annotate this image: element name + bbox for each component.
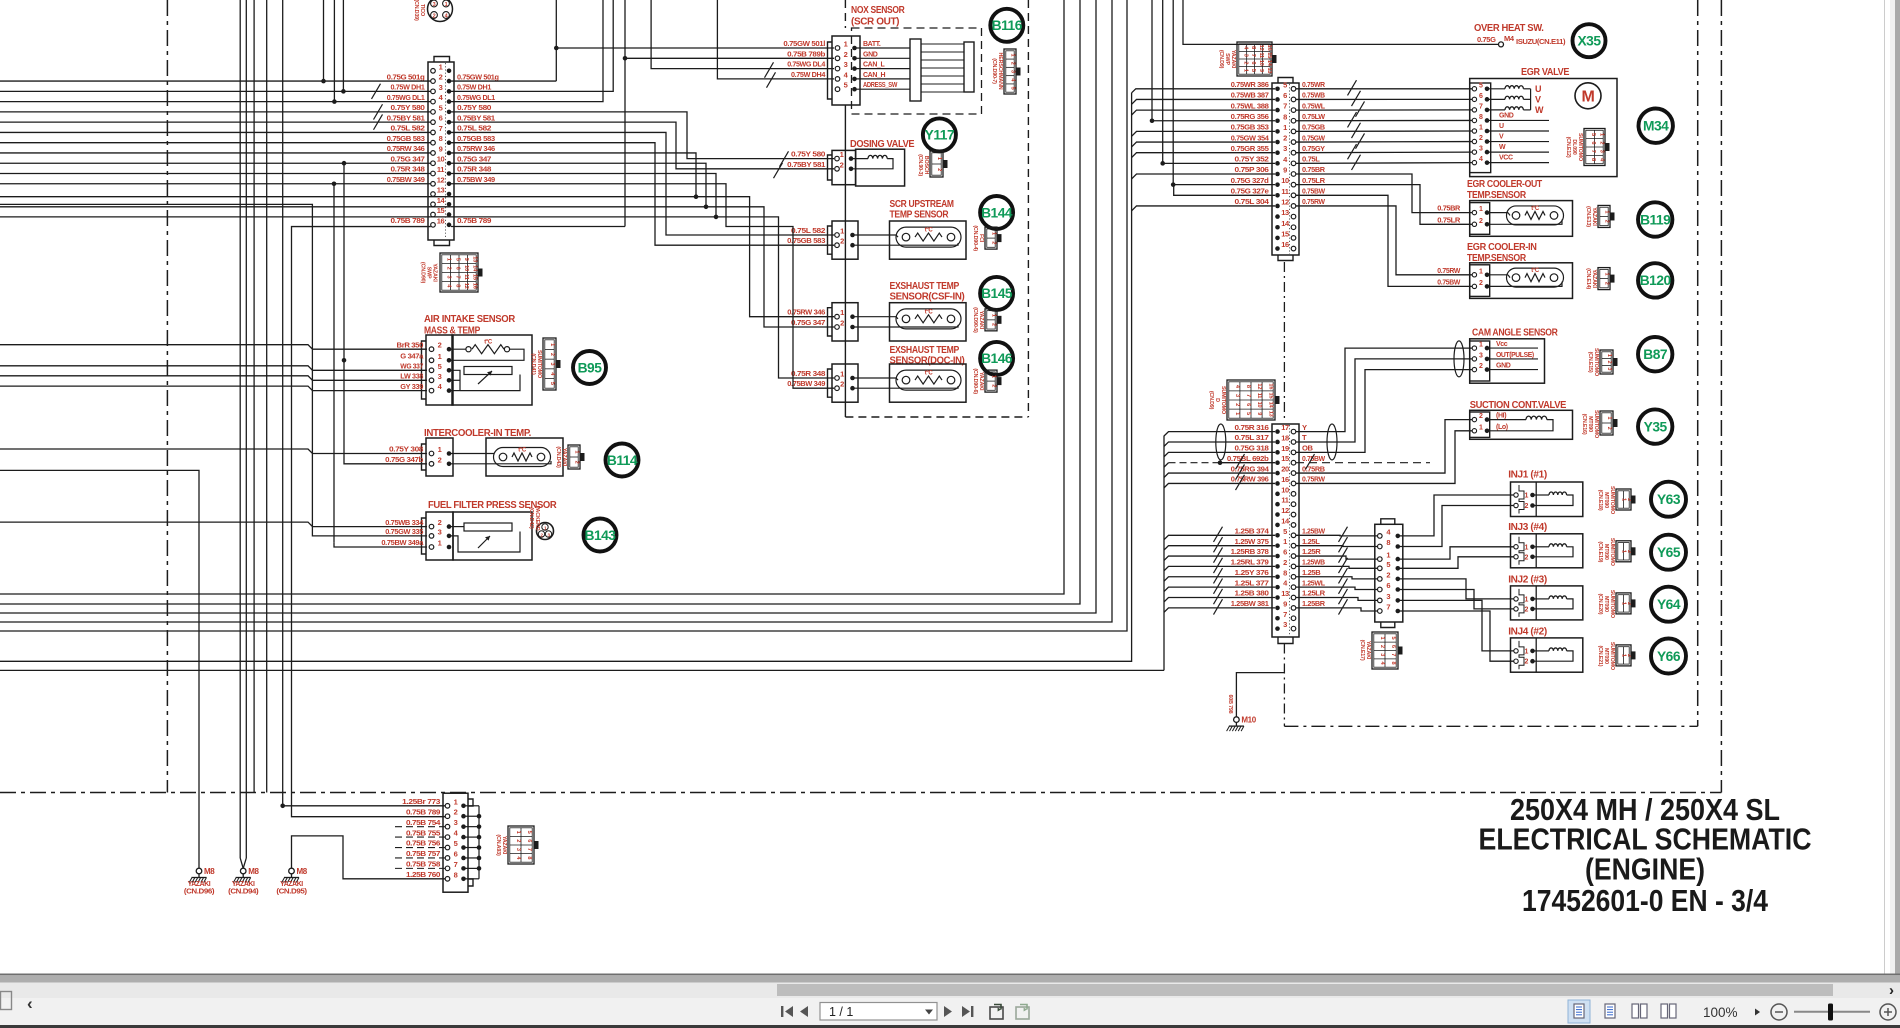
svg-text:0.75RW 346: 0.75RW 346 <box>457 144 495 153</box>
svg-text:1.25R: 1.25R <box>1302 547 1321 556</box>
svg-text:YAZAKI: YAZAKI <box>280 881 303 888</box>
svg-text:ELECTRICAL SCHEMATIC: ELECTRICAL SCHEMATIC <box>1479 823 1812 857</box>
svg-text:2: 2 <box>1479 280 1483 287</box>
svg-text:0.75W DH1: 0.75W DH1 <box>457 83 492 92</box>
svg-text:(CN.E21): (CN.E21) <box>1597 645 1603 666</box>
svg-text:CAN_L: CAN_L <box>863 62 886 69</box>
svg-text:B116: B116 <box>992 18 1023 33</box>
svg-text:TEMP.SENSOR: TEMP.SENSOR <box>1467 190 1527 201</box>
svg-text:(CN.D95): (CN.D95) <box>276 889 306 896</box>
svg-text:(CN.A93): (CN.A93) <box>495 834 501 856</box>
svg-text:0.75WB 334: 0.75WB 334 <box>385 518 424 527</box>
svg-text:1: 1 <box>1242 69 1248 72</box>
svg-text:Y65: Y65 <box>1657 545 1681 560</box>
svg-text:t°C: t°C <box>925 371 934 377</box>
svg-text:2: 2 <box>1283 134 1287 143</box>
svg-text:0.75R 348: 0.75R 348 <box>791 369 825 378</box>
svg-text:DOSING VALVE: DOSING VALVE <box>850 139 915 150</box>
svg-text:7: 7 <box>439 124 443 133</box>
svg-text:1: 1 <box>840 370 844 379</box>
svg-text:CAM ANGLE SENSOR: CAM ANGLE SENSOR <box>1472 328 1559 339</box>
svg-text:1: 1 <box>1379 637 1385 640</box>
svg-text:1: 1 <box>1606 354 1612 357</box>
svg-text:5: 5 <box>1590 133 1596 136</box>
svg-text:Vcc: Vcc <box>1496 341 1508 348</box>
svg-text:0.75GY: 0.75GY <box>1302 144 1325 153</box>
svg-text:1.25BW: 1.25BW <box>1302 527 1326 536</box>
svg-text:8: 8 <box>1250 46 1256 49</box>
svg-text:13: 13 <box>472 256 478 262</box>
svg-text:0.75GW 354: 0.75GW 354 <box>1231 133 1270 142</box>
svg-text:GND: GND <box>1496 363 1511 370</box>
svg-text:2: 2 <box>1283 558 1287 567</box>
svg-text:B119: B119 <box>1640 212 1671 227</box>
svg-text:TEMP SENSOR: TEMP SENSOR <box>890 210 950 221</box>
svg-text:0.75GR 355: 0.75GR 355 <box>1231 144 1270 153</box>
svg-text:2: 2 <box>1604 220 1610 223</box>
svg-text:0.75Y 580: 0.75Y 580 <box>457 103 491 112</box>
svg-text:0.75GW: 0.75GW <box>1302 133 1326 142</box>
svg-text:5: 5 <box>844 81 848 90</box>
svg-text:18: 18 <box>1281 433 1289 442</box>
svg-text:V: V <box>1535 94 1541 104</box>
svg-text:INJ2 (#3): INJ2 (#3) <box>1508 574 1547 586</box>
svg-text:2: 2 <box>840 319 844 328</box>
svg-text:0.75LR: 0.75LR <box>1302 176 1326 185</box>
svg-text:INJ4 (#2): INJ4 (#2) <box>1508 626 1547 638</box>
svg-text:2: 2 <box>1598 141 1604 144</box>
svg-text:1: 1 <box>1620 550 1626 553</box>
svg-text:0.75B 758: 0.75B 758 <box>406 860 440 869</box>
svg-text:5: 5 <box>439 103 443 112</box>
svg-text:1: 1 <box>445 2 448 8</box>
svg-text:0.75G 327d: 0.75G 327d <box>1231 176 1270 185</box>
svg-text:16: 16 <box>1267 383 1273 389</box>
svg-text:10: 10 <box>1258 60 1264 66</box>
svg-text:1.25Y 376: 1.25Y 376 <box>1235 568 1269 577</box>
svg-text:GND: GND <box>1499 112 1514 119</box>
svg-text:M10: M10 <box>1241 716 1256 725</box>
svg-text:0.75BY 581: 0.75BY 581 <box>387 113 426 122</box>
svg-text:LW 338: LW 338 <box>400 372 423 381</box>
svg-text:(CN.E14): (CN.E14) <box>1585 268 1591 289</box>
svg-text:0.75W DH4: 0.75W DH4 <box>791 70 826 79</box>
svg-text:VCC: VCC <box>1499 155 1513 162</box>
svg-text:8: 8 <box>1283 568 1287 577</box>
svg-text:B146: B146 <box>981 351 1013 366</box>
svg-text:0.75WR 386: 0.75WR 386 <box>1231 80 1269 89</box>
svg-text:2: 2 <box>1606 361 1612 364</box>
svg-text:11: 11 <box>437 165 444 174</box>
svg-text:2: 2 <box>439 73 443 82</box>
svg-text:(SCR OUT): (SCR OUT) <box>851 17 899 28</box>
svg-text:M: M <box>1582 89 1595 106</box>
svg-text:EXSHAUST TEMP: EXSHAUST TEMP <box>890 345 960 356</box>
svg-text:1.25LR: 1.25LR <box>1302 589 1326 598</box>
svg-text:11: 11 <box>1281 496 1288 505</box>
svg-text:9: 9 <box>1258 69 1264 72</box>
svg-text:15: 15 <box>1266 52 1272 58</box>
svg-text:15: 15 <box>1281 454 1289 463</box>
svg-text:0.75LW: 0.75LW <box>1302 112 1326 121</box>
svg-text:U: U <box>1535 84 1541 94</box>
svg-text:W: W <box>1535 105 1544 115</box>
svg-text:3: 3 <box>1606 367 1612 370</box>
svg-text:16: 16 <box>472 283 478 289</box>
svg-text:1.25RL 379: 1.25RL 379 <box>1231 558 1269 567</box>
svg-text:1: 1 <box>1479 268 1483 275</box>
svg-text:1: 1 <box>439 62 443 71</box>
svg-text:11: 11 <box>1258 52 1264 58</box>
svg-text:Y: Y <box>1302 423 1307 432</box>
svg-text:t°C: t°C <box>484 340 493 346</box>
svg-text:0.75WL 388: 0.75WL 388 <box>1231 101 1269 110</box>
svg-text:17452601-0 EN - 3/4: 17452601-0 EN - 3/4 <box>1522 884 1768 918</box>
svg-text:0.75L 582: 0.75L 582 <box>457 124 491 133</box>
svg-text:M8: M8 <box>297 867 308 876</box>
svg-text:1.25B 380: 1.25B 380 <box>1235 589 1269 598</box>
svg-text:OVER HEAT SW.: OVER HEAT SW. <box>1474 23 1544 34</box>
svg-text:5: 5 <box>1250 69 1256 72</box>
svg-text:NOX SENSOR: NOX SENSOR <box>851 5 905 16</box>
svg-text:SUCTION CONT.VALVE: SUCTION CONT.VALVE <box>1470 400 1567 411</box>
svg-text:0.75BR: 0.75BR <box>1302 165 1326 174</box>
svg-text:16: 16 <box>1266 45 1272 51</box>
svg-text:INJ3 (#4): INJ3 (#4) <box>1508 521 1547 533</box>
svg-text:10: 10 <box>463 265 469 271</box>
svg-text:9: 9 <box>439 144 443 153</box>
svg-text:5: 5 <box>454 258 460 261</box>
svg-text:B114: B114 <box>607 453 638 468</box>
svg-text:0.75B 789b: 0.75B 789b <box>787 49 826 58</box>
svg-text:1: 1 <box>1620 498 1626 501</box>
svg-text:0.75L 582: 0.75L 582 <box>391 124 425 133</box>
svg-text:16: 16 <box>1281 240 1289 249</box>
svg-text:3: 3 <box>1479 146 1483 153</box>
svg-text:1: 1 <box>438 445 442 454</box>
svg-text:OUT(PULSE): OUT(PULSE) <box>1496 352 1534 359</box>
svg-text:6: 6 <box>526 839 532 842</box>
svg-text:5: 5 <box>1010 87 1016 90</box>
svg-text:7: 7 <box>1479 103 1483 110</box>
svg-text:1.25B 374: 1.25B 374 <box>1235 527 1270 536</box>
svg-text:0.75RW: 0.75RW <box>1437 266 1461 275</box>
svg-text:2: 2 <box>844 50 848 59</box>
svg-text:0.75Y 580: 0.75Y 580 <box>391 103 425 112</box>
svg-text:2: 2 <box>991 241 997 244</box>
svg-text:1: 1 <box>1524 544 1528 551</box>
svg-text:13: 13 <box>1281 589 1289 598</box>
svg-text:1: 1 <box>991 375 997 378</box>
svg-text:2: 2 <box>1479 135 1483 142</box>
svg-text:GY 339: GY 339 <box>400 382 423 391</box>
svg-text:1: 1 <box>1479 342 1483 349</box>
svg-text:1.25WL: 1.25WL <box>1302 578 1325 587</box>
svg-text:1: 1 <box>1524 596 1528 603</box>
svg-text:1: 1 <box>1524 648 1528 655</box>
svg-text:0.75L 304: 0.75L 304 <box>1235 197 1270 206</box>
svg-text:3: 3 <box>439 83 443 92</box>
svg-text:1: 1 <box>840 227 844 236</box>
svg-text:2: 2 <box>1606 427 1612 430</box>
svg-text:(CN.E15): (CN.E15) <box>1587 352 1593 373</box>
svg-text:20: 20 <box>1281 465 1289 474</box>
svg-text:9: 9 <box>1256 412 1262 415</box>
svg-text:EXSHAUST TEMP: EXSHAUST TEMP <box>890 281 960 292</box>
svg-text:2: 2 <box>1479 218 1483 225</box>
svg-text:6: 6 <box>1386 581 1390 590</box>
svg-text:0.75WG DL1: 0.75WG DL1 <box>457 93 496 102</box>
svg-text:2: 2 <box>1479 363 1483 370</box>
svg-text:5: 5 <box>1245 412 1251 415</box>
svg-text:16: 16 <box>1281 475 1289 484</box>
svg-text:5: 5 <box>454 839 458 848</box>
svg-text:1: 1 <box>1604 273 1610 276</box>
svg-text:7: 7 <box>454 275 460 278</box>
svg-text:2: 2 <box>991 323 997 326</box>
svg-text:2: 2 <box>1479 413 1483 420</box>
svg-text:(CN.D39): (CN.D39) <box>413 0 419 21</box>
svg-text:11: 11 <box>1281 187 1288 196</box>
svg-text:1: 1 <box>549 343 555 346</box>
svg-text:M4: M4 <box>1504 34 1515 43</box>
svg-text:1.25Br 773: 1.25Br 773 <box>402 797 440 806</box>
svg-text:5: 5 <box>1479 82 1483 89</box>
svg-text:0.75WR: 0.75WR <box>1302 80 1326 89</box>
svg-text:2: 2 <box>433 13 436 19</box>
svg-text:M34: M34 <box>1643 119 1669 134</box>
svg-text:0.75P 306: 0.75P 306 <box>1235 165 1269 174</box>
svg-text:10: 10 <box>1256 402 1262 408</box>
svg-text:V: V <box>1499 134 1504 141</box>
svg-text:(CN.D42): (CN.D42) <box>528 507 534 529</box>
svg-text:15: 15 <box>1281 229 1289 238</box>
svg-text:1: 1 <box>438 539 442 548</box>
svg-text:19: 19 <box>1281 444 1289 453</box>
svg-text:0.75R 348: 0.75R 348 <box>391 165 425 174</box>
svg-text:(CN.D90-7): (CN.D90-7) <box>991 58 997 84</box>
svg-text:2: 2 <box>1379 645 1385 648</box>
svg-text:5: 5 <box>549 382 555 385</box>
svg-text:0.75WB: 0.75WB <box>1302 91 1326 100</box>
svg-text:2: 2 <box>1242 61 1248 64</box>
svg-text:5: 5 <box>1283 80 1287 89</box>
svg-text:GND: GND <box>863 51 878 58</box>
svg-text:2: 2 <box>454 808 458 817</box>
svg-text:0.75BW 349: 0.75BW 349 <box>457 175 495 184</box>
svg-text:7: 7 <box>526 848 532 851</box>
svg-text:0.75B 789: 0.75B 789 <box>406 807 440 816</box>
svg-text:10: 10 <box>1281 176 1289 185</box>
svg-text:0.75RG 394: 0.75RG 394 <box>1231 464 1270 473</box>
svg-text:14: 14 <box>1281 219 1290 228</box>
svg-text:3: 3 <box>549 363 555 366</box>
svg-text:0.75BY 581: 0.75BY 581 <box>787 160 826 169</box>
svg-text:0.75L 317: 0.75L 317 <box>1235 433 1269 442</box>
svg-text:0.75G 347: 0.75G 347 <box>457 154 491 163</box>
svg-text:100%: 100% <box>1703 1005 1738 1020</box>
svg-text:1.25W 375: 1.25W 375 <box>1235 537 1270 546</box>
svg-text:B144: B144 <box>981 205 1013 220</box>
svg-text:1: 1 <box>1283 123 1287 132</box>
svg-text:2: 2 <box>438 341 442 350</box>
svg-text:0.75G 347: 0.75G 347 <box>391 154 425 163</box>
svg-text:3: 3 <box>446 275 452 278</box>
svg-text:5: 5 <box>438 362 442 371</box>
svg-text:16: 16 <box>437 216 445 225</box>
svg-text:0.75LR: 0.75LR <box>1437 215 1461 224</box>
svg-text:2: 2 <box>1386 570 1390 579</box>
svg-text:(ENGINE): (ENGINE) <box>1585 853 1705 887</box>
svg-text:(CN.90-3): (CN.90-3) <box>917 154 923 176</box>
svg-text:0.75G 347: 0.75G 347 <box>791 318 825 327</box>
svg-text:0.75B 755: 0.75B 755 <box>406 828 441 837</box>
svg-text:2: 2 <box>1524 606 1528 613</box>
svg-text:‹: ‹ <box>27 994 33 1013</box>
svg-text:0.75BW: 0.75BW <box>1437 277 1461 286</box>
svg-text:3: 3 <box>1242 54 1248 57</box>
svg-text:(CN.E13): (CN.E13) <box>1585 206 1591 227</box>
svg-text:12: 12 <box>1281 506 1289 515</box>
svg-text:3: 3 <box>1598 150 1604 153</box>
svg-text:Y63: Y63 <box>1657 492 1681 507</box>
svg-text:1: 1 <box>1524 493 1528 500</box>
svg-text:0.75B 757: 0.75B 757 <box>406 849 440 858</box>
svg-text:1: 1 <box>1386 551 1390 560</box>
svg-text:t°C: t°C <box>925 228 934 234</box>
svg-text:(CN.E12): (CN.E12) <box>1565 137 1571 158</box>
svg-text:8: 8 <box>1283 112 1287 121</box>
svg-text:6: 6 <box>454 849 458 858</box>
svg-text:6: 6 <box>1479 93 1483 100</box>
svg-text:(CN.E16): (CN.E16) <box>1581 414 1587 435</box>
svg-text:1: 1 <box>515 831 521 834</box>
svg-text:15: 15 <box>472 274 478 280</box>
svg-text:Y64: Y64 <box>1657 597 1681 612</box>
svg-text:0.75RG 356: 0.75RG 356 <box>1231 112 1269 121</box>
svg-text:SENSOR(DOC-IN): SENSOR(DOC-IN) <box>890 356 965 367</box>
svg-text:BATT.: BATT. <box>863 41 881 48</box>
svg-text:7: 7 <box>454 860 458 869</box>
svg-text:8: 8 <box>1479 114 1483 121</box>
svg-text:Y35: Y35 <box>1644 419 1668 434</box>
svg-text:0.75R 348: 0.75R 348 <box>457 165 491 174</box>
svg-text:0.75R 316: 0.75R 316 <box>1235 423 1269 432</box>
svg-text:0.75GB 583: 0.75GB 583 <box>387 134 425 143</box>
svg-text:0.75RW: 0.75RW <box>1302 197 1326 206</box>
svg-text:0.75B 754: 0.75B 754 <box>406 818 441 827</box>
svg-text:3: 3 <box>1283 144 1287 153</box>
svg-text:t°C: t°C <box>518 448 527 454</box>
svg-text:1: 1 <box>1479 206 1483 213</box>
svg-text:0.75G 327e: 0.75G 327e <box>1231 187 1269 196</box>
svg-text:2: 2 <box>1234 403 1240 406</box>
svg-text:8: 8 <box>439 134 443 143</box>
svg-text:1: 1 <box>454 797 458 806</box>
svg-text:CAN_H: CAN_H <box>863 72 886 79</box>
svg-text:OB: OB <box>1302 444 1314 453</box>
svg-text:8: 8 <box>526 856 532 859</box>
svg-text:3: 3 <box>433 2 436 8</box>
svg-text:1.25RB 378: 1.25RB 378 <box>1231 547 1269 556</box>
svg-text:3: 3 <box>1283 620 1287 629</box>
svg-text:13: 13 <box>437 186 445 195</box>
svg-text:1: 1 <box>991 232 997 235</box>
svg-text:6: 6 <box>1283 548 1287 557</box>
svg-text:3: 3 <box>1010 70 1016 73</box>
svg-text:W: W <box>1499 144 1506 151</box>
svg-text:(CN.E19): (CN.E19) <box>1597 541 1603 562</box>
svg-text:1: 1 <box>936 157 942 160</box>
svg-text:7: 7 <box>1283 102 1287 111</box>
svg-text:6: 6 <box>439 114 443 123</box>
svg-text:SWP: SWP <box>426 267 432 279</box>
svg-text:t°C: t°C <box>1531 268 1540 274</box>
svg-text:ISUZU(CN.E11): ISUZU(CN.E11) <box>1516 39 1565 46</box>
svg-text:6: 6 <box>454 267 460 270</box>
svg-text:0.75WB 387: 0.75WB 387 <box>1231 91 1269 100</box>
svg-text:2: 2 <box>446 267 452 270</box>
svg-text:3: 3 <box>438 372 442 381</box>
svg-text:SCR UPSTREAM: SCR UPSTREAM <box>890 199 954 210</box>
svg-text:1: 1 <box>574 450 580 453</box>
svg-text:2: 2 <box>1010 62 1016 65</box>
svg-text:0.75BL 692b: 0.75BL 692b <box>1227 454 1269 463</box>
svg-text:0.75W DH1: 0.75W DH1 <box>391 83 426 92</box>
svg-text:8: 8 <box>1386 538 1390 547</box>
svg-text:EGR COOLER-OUT: EGR COOLER-OUT <box>1467 179 1542 190</box>
svg-text:8: 8 <box>1390 662 1396 665</box>
svg-text:YAZAKI: YAZAKI <box>432 263 438 282</box>
svg-text:0.75BW 349a: 0.75BW 349a <box>381 538 424 547</box>
svg-text:B145: B145 <box>981 286 1013 301</box>
svg-text:1: 1 <box>1598 133 1604 136</box>
svg-text:11: 11 <box>463 274 469 280</box>
svg-text:2: 2 <box>438 518 442 527</box>
svg-text:1: 1 <box>1606 416 1612 419</box>
svg-text:1.25BW 381: 1.25BW 381 <box>1231 599 1270 608</box>
svg-text:0.75WL: 0.75WL <box>1302 101 1325 110</box>
svg-text:8: 8 <box>454 284 460 287</box>
svg-text:2: 2 <box>1524 503 1528 510</box>
svg-text:(CN.D9): (CN.D9) <box>1208 391 1214 410</box>
svg-text:1.25L 377: 1.25L 377 <box>1235 578 1269 587</box>
svg-text:1 / 1: 1 / 1 <box>829 1005 853 1019</box>
svg-text:(CN.D96): (CN.D96) <box>184 889 214 896</box>
svg-text:6: 6 <box>1590 141 1596 144</box>
svg-text:2: 2 <box>574 461 580 464</box>
svg-text:t°C: t°C <box>1531 206 1540 212</box>
svg-text:U: U <box>1499 123 1504 130</box>
svg-text:0.75Y 580: 0.75Y 580 <box>791 150 825 159</box>
svg-text:2: 2 <box>840 380 844 389</box>
svg-text:0.75BW 349: 0.75BW 349 <box>387 175 425 184</box>
svg-text:17: 17 <box>1281 423 1289 432</box>
svg-text:12: 12 <box>1281 197 1289 206</box>
svg-text:8: 8 <box>454 870 458 879</box>
svg-text:(CN.D43): (CN.D43) <box>555 446 561 468</box>
svg-text:7: 7 <box>1245 394 1251 397</box>
svg-text:1: 1 <box>1620 654 1626 657</box>
svg-text:3: 3 <box>438 527 442 536</box>
svg-text:0.75G 347b: 0.75G 347b <box>385 455 424 464</box>
svg-text:(CN.D90-4): (CN.D90-4) <box>972 225 978 251</box>
svg-text:5: 5 <box>526 831 532 834</box>
svg-text:0.75GW 501l: 0.75GW 501l <box>783 39 825 48</box>
svg-text:1: 1 <box>840 150 844 159</box>
svg-text:0.75BR: 0.75BR <box>1437 204 1461 213</box>
svg-text:15: 15 <box>1267 393 1273 399</box>
